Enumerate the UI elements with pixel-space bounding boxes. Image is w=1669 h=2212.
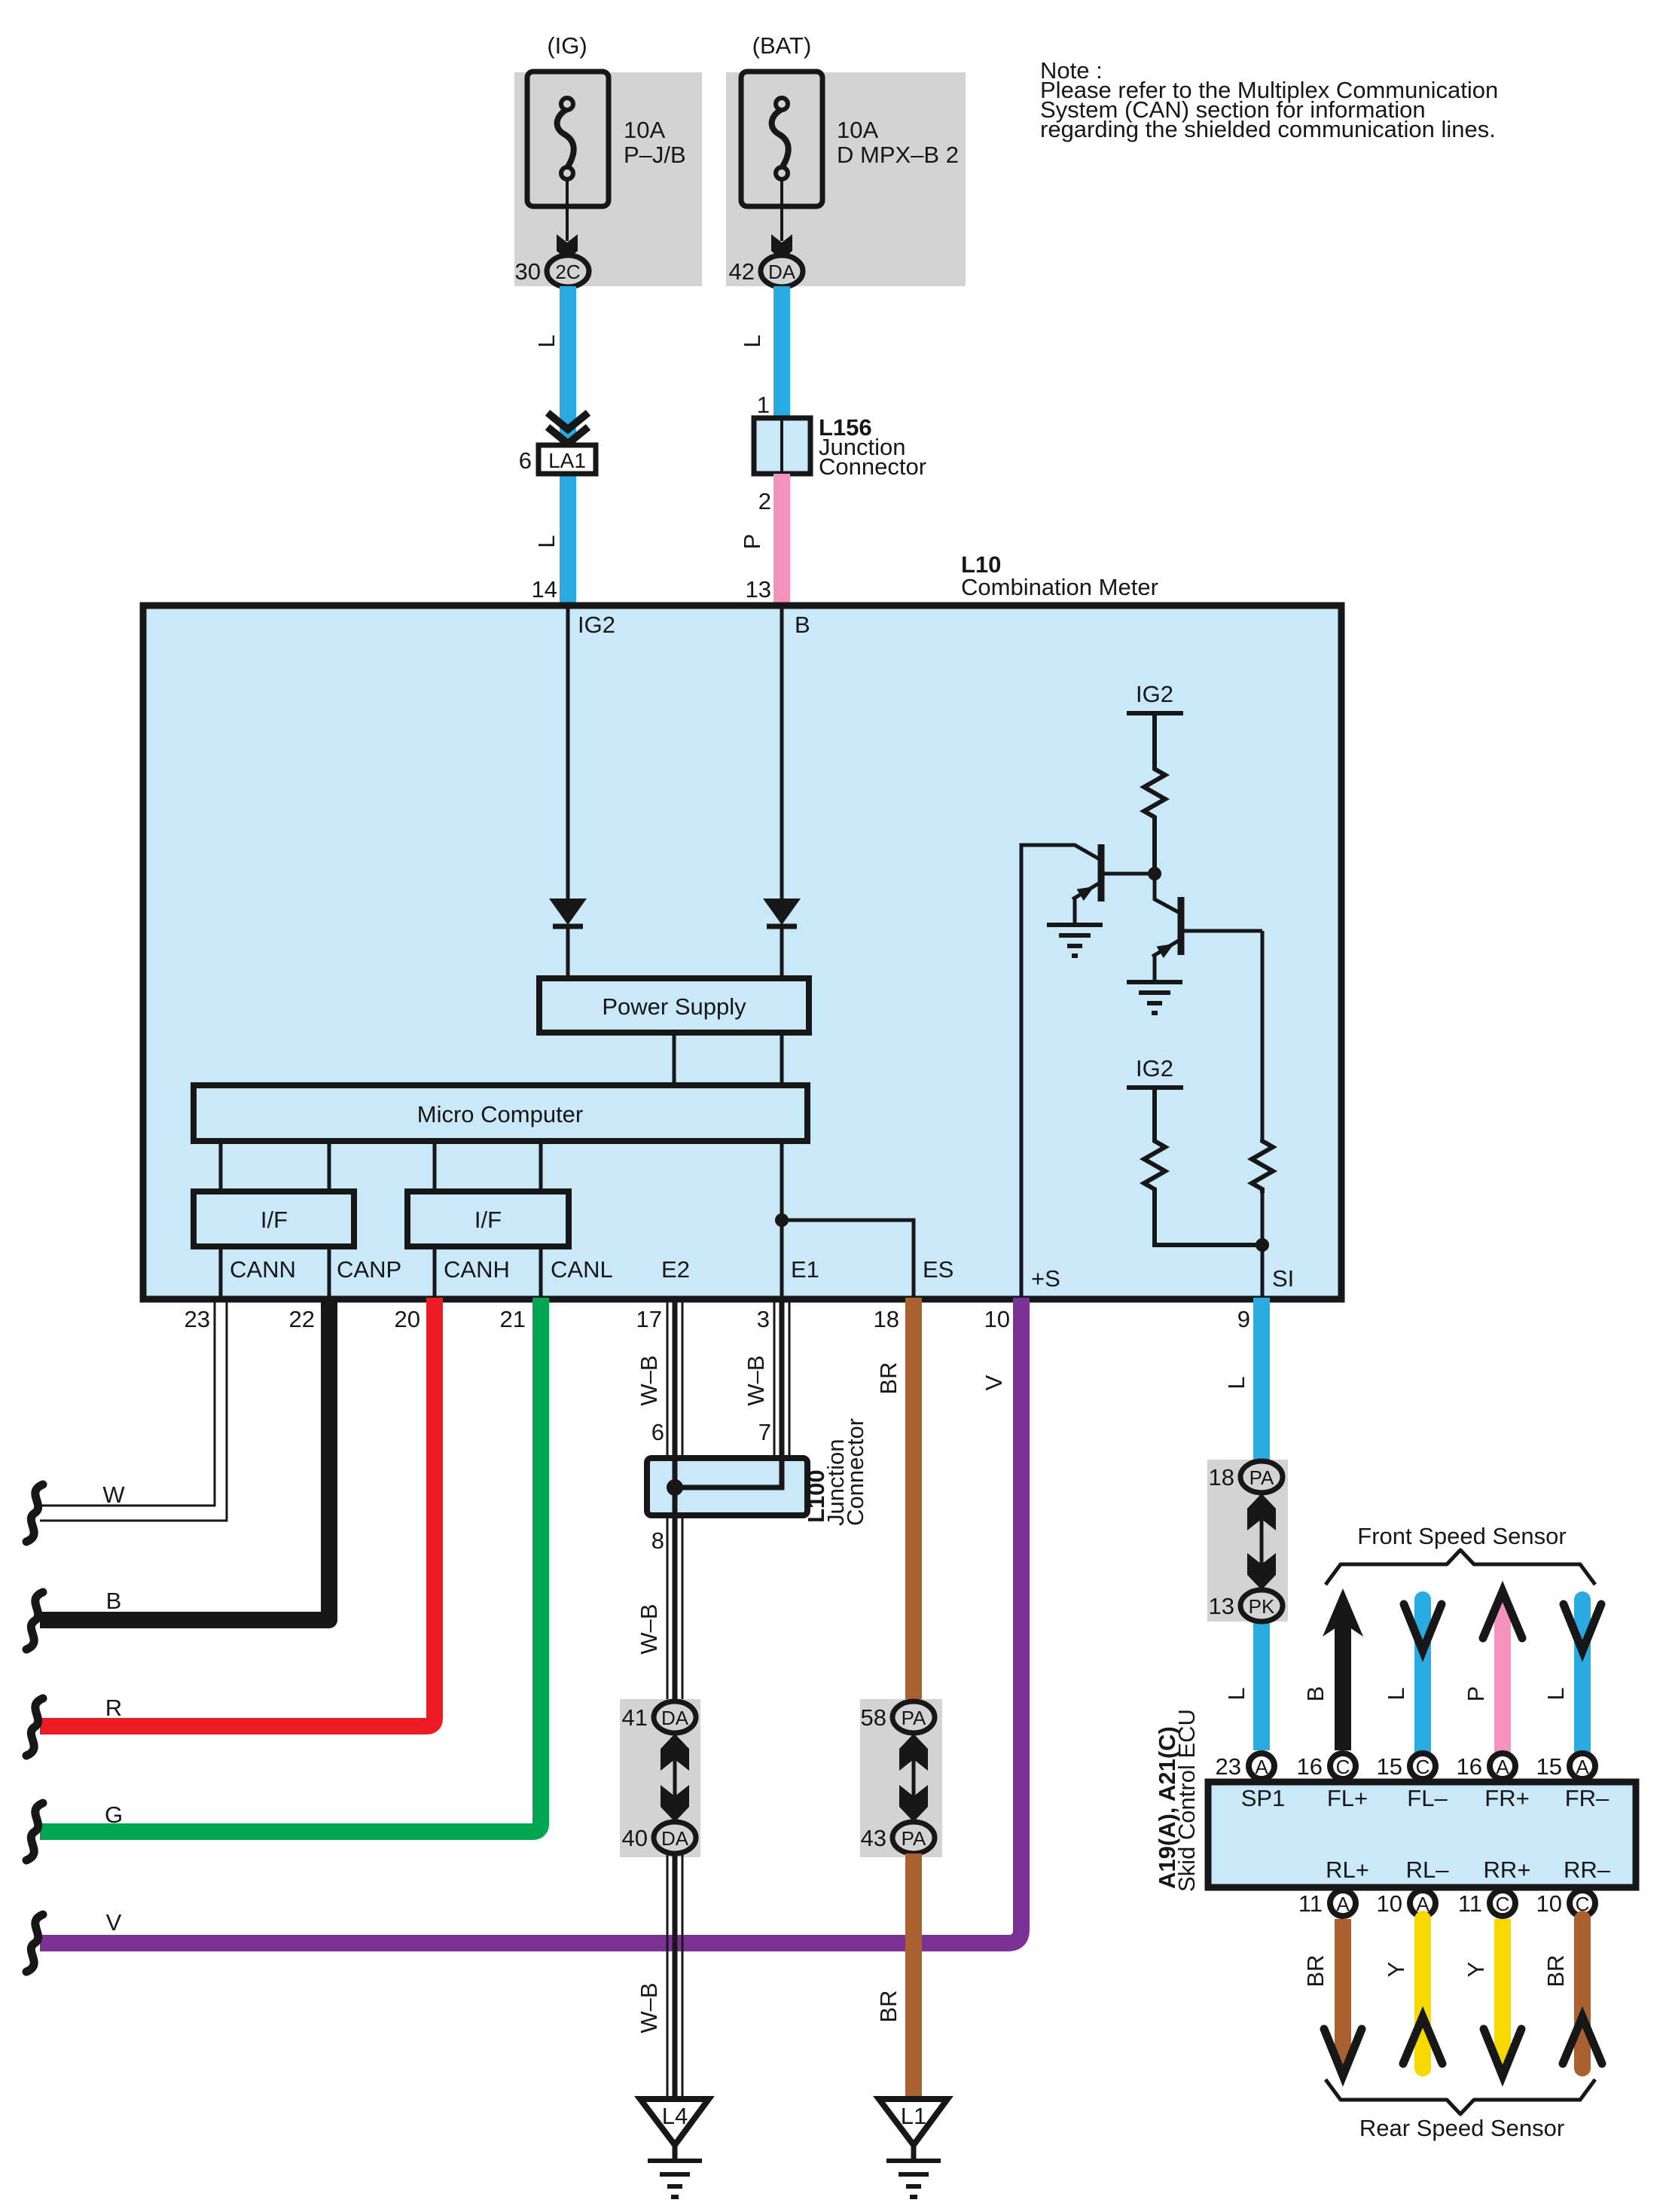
wire W-B 40 DA to ground L4 [667, 1854, 682, 2099]
svg-text:13: 13 [1209, 1593, 1234, 1619]
arrow down open FL- [1404, 1604, 1442, 1651]
wire BR 43 PA to ground L1 [905, 1854, 922, 2099]
svg-text:10A: 10A [624, 117, 665, 143]
inline arrow between DA connectors [661, 1734, 689, 1822]
wire G (CANL) pin 21 to left edge [40, 1298, 541, 1832]
svg-text:10: 10 [984, 1306, 1010, 1332]
resistor R3 [1252, 1140, 1273, 1193]
micro computer box [194, 1085, 807, 1141]
ground L1 [879, 2099, 947, 2197]
wire P (pink) L156 to combination meter pin 13 [773, 474, 790, 606]
svg-text:8: 8 [651, 1527, 664, 1554]
svg-text:FL+: FL+ [1327, 1785, 1368, 1811]
connector 30 2C [547, 255, 589, 287]
note text [1040, 57, 1498, 142]
svg-text:FR+: FR+ [1484, 1785, 1529, 1811]
connector PA-PK gray panel [1207, 1460, 1288, 1622]
ECU pin 11 A [1298, 1890, 1356, 1917]
svg-text:RL+: RL+ [1326, 1857, 1369, 1883]
svg-text:A: A [1496, 1756, 1509, 1778]
power supply box [539, 978, 809, 1033]
ECU pin 11 C [1458, 1890, 1515, 1917]
svg-text:L4: L4 [662, 2103, 688, 2129]
fuse output arrow to 2C [566, 179, 569, 241]
ECU pin 23 A [1216, 1753, 1274, 1780]
svg-text:10: 10 [1377, 1890, 1402, 1917]
wire B internal [780, 609, 784, 900]
svg-text:14: 14 [532, 576, 557, 603]
svg-text:B: B [106, 1588, 122, 1614]
ground L4 [640, 2099, 709, 2197]
wire W-B (E2) pin 17 to junction L100 [667, 1298, 682, 1458]
wire Y rear sensor RR+ [1494, 1919, 1511, 2067]
svg-text:P–J/B: P–J/B [624, 142, 686, 168]
diode D2 [763, 899, 801, 978]
wires I/F to CAN pins [219, 1246, 223, 1298]
connector 18 PA [1240, 1461, 1283, 1493]
wire E1 internal [780, 1033, 784, 1298]
svg-text:SI: SI [1272, 1265, 1294, 1292]
svg-text:C: C [1416, 1756, 1430, 1778]
ECU pin 15 C [1377, 1753, 1436, 1780]
wire R (CANH) pin 20 to left edge [40, 1298, 435, 1726]
wire Q2 collector to SI [1261, 931, 1265, 1140]
svg-text:L: L [1542, 1687, 1569, 1700]
svg-text:W: W [102, 1481, 125, 1508]
svg-text:20: 20 [395, 1306, 420, 1332]
connector 41 DA [654, 1701, 696, 1733]
double chevron into LA1 [548, 413, 588, 429]
combination meter L10 box [143, 606, 1341, 1299]
connector 6 LA1 [539, 445, 596, 474]
brace rear speed sensor [1326, 2079, 1595, 2114]
svg-text:C: C [1496, 1893, 1510, 1915]
junction connector L100 [647, 1458, 807, 1515]
svg-text:BR: BR [1302, 1954, 1329, 1987]
fuse 10A D MPX-B 2 [741, 72, 822, 206]
svg-text:(BAT): (BAT) [752, 32, 812, 59]
node E1/ES junction [775, 1213, 789, 1227]
wires micro computer to I/F [219, 1141, 223, 1191]
svg-text:23: 23 [185, 1306, 210, 1332]
svg-text:V: V [106, 1909, 122, 1936]
wire power supply to micro computer [673, 1033, 676, 1085]
wire L (blue) fuse DA to junction L156 [773, 286, 790, 420]
svg-text:IG2: IG2 [1136, 681, 1173, 707]
svg-text:G: G [105, 1802, 123, 1828]
fuse output arrow to DA [780, 179, 783, 241]
inline arrow between PA and PK [1247, 1493, 1276, 1590]
wire G curl end [26, 1803, 43, 1860]
svg-text:21: 21 [500, 1306, 526, 1332]
ECU pin 16 C [1297, 1753, 1356, 1780]
svg-text:B: B [1302, 1686, 1329, 1702]
svg-text:W–B: W–B [636, 1355, 662, 1405]
ECU bottom pin labels [1326, 1857, 1611, 1883]
wire IG2 internal [566, 609, 570, 900]
svg-text:3: 3 [757, 1306, 770, 1332]
connector 58 PA [892, 1701, 935, 1733]
svg-text:PA: PA [902, 1827, 926, 1850]
svg-text:41: 41 [622, 1704, 648, 1731]
svg-text:2: 2 [758, 488, 771, 514]
svg-text:CANN: CANN [230, 1256, 296, 1283]
svg-text:C: C [1336, 1756, 1350, 1778]
skid control ECU box [1208, 1782, 1636, 1887]
svg-text:22: 22 [289, 1306, 315, 1332]
arrow down open FR- [1564, 1604, 1601, 1651]
svg-text:BR: BR [1542, 1954, 1569, 1987]
svg-text:CANL: CANL [551, 1256, 613, 1283]
wire W curl end [26, 1484, 43, 1542]
svg-text:(IG): (IG) [547, 32, 587, 59]
wire BR rear sensor RR- [1574, 1919, 1591, 2068]
svg-text:PA: PA [1249, 1466, 1274, 1489]
connector 42 DA [761, 255, 803, 287]
svg-text:A: A [1255, 1756, 1268, 1778]
wire B front sensor FL+ [1335, 1619, 1351, 1750]
svg-text:FL–: FL– [1407, 1785, 1448, 1811]
arrow up open RR- [1563, 2017, 1602, 2064]
I/F box 2 [407, 1191, 569, 1246]
label A19(A), A21(C) Skid Control ECU (rotated) [1154, 1709, 1200, 1892]
svg-text:DA: DA [661, 1827, 689, 1850]
wire V (violet) pin 10 to left edge [40, 1298, 1021, 1943]
connector 13 PK [1240, 1590, 1283, 1622]
junction connector L156 [754, 418, 810, 474]
wire V curl end [26, 1915, 43, 1972]
wire ES internal [782, 1220, 914, 1298]
svg-text:FR–: FR– [1565, 1785, 1610, 1811]
svg-text:PA: PA [902, 1707, 926, 1729]
svg-text:B: B [795, 612, 810, 638]
wire W (CANN) pin 23 to left edge [40, 1298, 227, 1521]
svg-text:E2: E2 [661, 1256, 690, 1283]
svg-text:30: 30 [515, 258, 541, 285]
wire L front sensor FL- [1414, 1600, 1431, 1750]
svg-text:W–B: W–B [743, 1355, 769, 1405]
svg-text:CANH: CANH [444, 1256, 510, 1283]
fuse panel gray box D MPX-B 2 [726, 72, 966, 286]
svg-text:V: V [981, 1374, 1007, 1390]
svg-text:CANP: CANP [337, 1256, 401, 1283]
svg-text:Combination Meter: Combination Meter [961, 574, 1158, 600]
svg-text:Skid Control ECU: Skid Control ECU [1173, 1709, 1200, 1892]
ECU pin 10 C [1536, 1890, 1595, 1917]
svg-text:1: 1 [757, 392, 770, 418]
svg-text:RR+: RR+ [1484, 1857, 1531, 1883]
svg-text:18: 18 [874, 1306, 899, 1332]
connector 43 PA [892, 1822, 935, 1854]
resistor R2 [1144, 1140, 1165, 1193]
transistor Q2 [1152, 874, 1262, 982]
svg-text:I/F: I/F [261, 1207, 288, 1233]
svg-text:R: R [105, 1695, 122, 1721]
svg-text:Y: Y [1383, 1962, 1409, 1978]
svg-text:Front Speed Sensor: Front Speed Sensor [1357, 1523, 1566, 1549]
svg-text:2C: 2C [555, 261, 580, 283]
svg-text:IG2: IG2 [1136, 1055, 1173, 1082]
svg-text:L: L [533, 535, 560, 548]
power rail IG2 upper [1127, 681, 1183, 767]
wire L (blue) SI pin 9 to skid control ECU pin 23 [1253, 1298, 1270, 1750]
svg-text:Connector: Connector [842, 1418, 868, 1526]
svg-text:13: 13 [746, 576, 771, 603]
connector DA-DA gray panel [620, 1699, 700, 1857]
node L100 junction [667, 1479, 683, 1496]
svg-text:L: L [1223, 1376, 1249, 1389]
svg-text:BR: BR [875, 1990, 902, 2022]
svg-text:Power Supply: Power Supply [602, 993, 746, 1020]
fuse panel gray box P-J/B [514, 72, 702, 286]
svg-text:P: P [739, 534, 765, 550]
svg-text:P: P [1463, 1686, 1489, 1702]
arrow up solid FL+ [1323, 1588, 1363, 1637]
svg-text:L: L [533, 334, 560, 347]
svg-text:RL–: RL– [1406, 1857, 1450, 1883]
svg-text:17: 17 [636, 1306, 662, 1332]
svg-text:W–B: W–B [636, 1603, 662, 1654]
svg-text:16: 16 [1457, 1753, 1482, 1780]
power rail IG2 lower [1127, 1055, 1183, 1140]
wire W-B (E1) pin 3 to junction L100 [774, 1298, 789, 1458]
svg-text:43: 43 [861, 1825, 886, 1851]
svg-text:6: 6 [519, 447, 532, 474]
svg-text:L: L [1223, 1687, 1249, 1700]
brace front speed sensor [1326, 1550, 1595, 1585]
arrow up open FR+ [1483, 1591, 1522, 1638]
connector 40 DA [654, 1822, 696, 1854]
svg-text:E1: E1 [791, 1256, 819, 1283]
svg-text:L: L [1383, 1687, 1409, 1700]
svg-text:11: 11 [1458, 1890, 1482, 1917]
svg-text:LA1: LA1 [548, 449, 586, 472]
svg-text:SP1: SP1 [1241, 1785, 1286, 1811]
svg-text:7: 7 [758, 1419, 771, 1445]
svg-text:11: 11 [1298, 1890, 1323, 1917]
wire L front sensor FR- [1574, 1600, 1591, 1750]
svg-text:58: 58 [861, 1704, 886, 1731]
wire W-B L100 to connector 41 DA [667, 1515, 682, 1704]
svg-text:A: A [1336, 1893, 1350, 1915]
svg-text:23: 23 [1216, 1753, 1241, 1780]
svg-text:Micro Computer: Micro Computer [417, 1101, 584, 1127]
fuse 10A P-J/B [527, 72, 609, 206]
svg-text:6: 6 [651, 1419, 664, 1445]
svg-text:DA: DA [661, 1707, 689, 1729]
svg-text:L: L [739, 334, 765, 347]
svg-text:Rear Speed Sensor: Rear Speed Sensor [1359, 2115, 1564, 2141]
wire Y rear sensor RL- [1414, 1919, 1431, 2068]
svg-text:BR: BR [875, 1362, 902, 1394]
wire L (blue) fuse 2C to combination meter pin 14 [560, 286, 576, 606]
svg-text:16: 16 [1297, 1753, 1323, 1780]
wire P front sensor FR+ [1494, 1603, 1511, 1750]
wire B curl end [26, 1592, 43, 1649]
svg-text:DA: DA [768, 261, 796, 283]
svg-text:IG2: IG2 [578, 612, 615, 638]
wire E2 through L100 [673, 1458, 678, 1515]
svg-text:ES: ES [923, 1256, 953, 1283]
svg-text:10: 10 [1536, 1890, 1562, 1917]
arrow up open RL- [1403, 2017, 1442, 2064]
svg-text:Y: Y [1463, 1962, 1489, 1978]
transistor Q1 [1072, 844, 1155, 925]
svg-text:D MPX–B 2: D MPX–B 2 [837, 142, 959, 168]
wire +S internal [1021, 845, 1101, 1298]
svg-text:15: 15 [1377, 1753, 1402, 1780]
ECU pin 15 A [1536, 1753, 1595, 1780]
ECU pin 16 A [1457, 1753, 1515, 1780]
resistor R1 [1144, 767, 1165, 821]
svg-text:A: A [1576, 1756, 1589, 1778]
svg-text:40: 40 [622, 1825, 648, 1851]
svg-text:I/F: I/F [474, 1207, 502, 1233]
svg-text:+S: +S [1031, 1265, 1060, 1292]
pin labels bottom of L10 [230, 1256, 1294, 1292]
ECU pin 10 A [1377, 1890, 1436, 1917]
ground Q1 [1047, 925, 1103, 956]
I/F box 1 [194, 1191, 354, 1246]
arrow down open RL+ [1324, 2029, 1362, 2076]
wire BR (ES) pin 18 to connector 58 PA [905, 1298, 922, 1704]
svg-text:W–B: W–B [636, 1982, 662, 2033]
svg-text:15: 15 [1536, 1753, 1562, 1780]
arrow down open RR+ [1484, 2029, 1521, 2076]
svg-text:RR–: RR– [1564, 1857, 1611, 1883]
svg-text:Connector: Connector [819, 453, 926, 480]
wire BR rear sensor RL+ [1335, 1919, 1351, 2067]
wire B (CANP) pin 22 to left edge [40, 1298, 329, 1620]
wire R curl end [26, 1698, 43, 1756]
svg-text:PK: PK [1249, 1595, 1275, 1618]
pin numbers below L10 [185, 1306, 1250, 1332]
wire E1 to E2 inside L100 [675, 1458, 782, 1487]
ECU top pin labels [1241, 1785, 1610, 1811]
node base junction [1148, 867, 1161, 880]
node SI junction [1256, 1238, 1269, 1252]
ground Q2 [1127, 982, 1182, 1013]
connector PA-PA gray panel [860, 1699, 942, 1857]
svg-text:9: 9 [1237, 1306, 1250, 1332]
diode D1 [549, 899, 587, 978]
inline arrow between PA connectors [899, 1734, 928, 1822]
svg-text:42: 42 [729, 258, 755, 285]
label L100 Junction Connector (rotated) [803, 1418, 868, 1526]
svg-text:18: 18 [1209, 1464, 1234, 1490]
svg-text:L1: L1 [901, 2103, 926, 2129]
svg-text:regarding the shielded communi: regarding the shielded communication lin… [1040, 116, 1496, 142]
svg-text:10A: 10A [837, 117, 878, 143]
